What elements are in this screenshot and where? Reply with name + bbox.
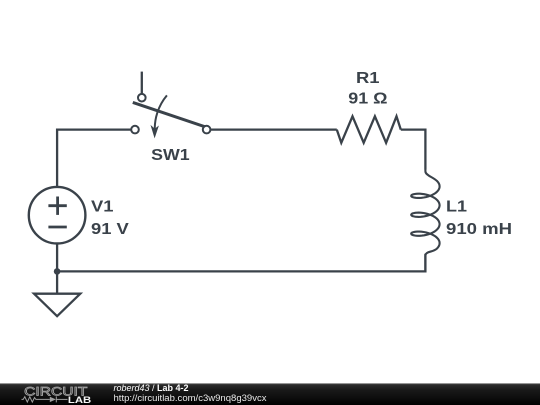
ground: [34, 294, 80, 317]
svg-text:SW1: SW1: [151, 147, 190, 164]
switch rotation arrow: [155, 95, 167, 132]
switch terminal: left: [131, 126, 139, 134]
wire: V1 top to switch left terminal: [57, 130, 131, 187]
svg-text:91 Ω: 91 Ω: [348, 91, 387, 108]
svg-text:roberd43 / Lab 4-2: roberd43 / Lab 4-2: [114, 383, 189, 393]
resistor R1: [337, 116, 401, 143]
node junction dot: [54, 268, 61, 275]
inductor L1: [411, 169, 439, 271]
svg-text:http://circuitlab.com/c3w9nq8g: http://circuitlab.com/c3w9nq8g39vcx: [114, 393, 268, 403]
svg-text:910 mH: 910 mH: [446, 221, 512, 238]
CircuitLab logo: zigzag + diode glyph: [22, 396, 68, 402]
svg-text:V1: V1: [91, 199, 114, 216]
svg-text:R1: R1: [356, 70, 380, 87]
wire: bottom rail, inductor bottom to junction: [57, 254, 425, 272]
minus sign: [48, 226, 66, 229]
wire: resistor R1 to inductor L1 top: [401, 130, 426, 170]
voltage source V1: [29, 187, 86, 244]
svg-text:LAB: LAB: [68, 395, 91, 405]
footer bar: [0, 383, 540, 405]
switch terminal: right: [203, 126, 211, 134]
wire: switch top stub: [141, 72, 143, 94]
svg-text:91 V: 91 V: [91, 221, 129, 238]
switch terminal: top: [138, 94, 146, 102]
plus sign: [48, 204, 66, 207]
switch lever: [133, 102, 207, 127]
svg-text:L1: L1: [446, 199, 467, 216]
wire: V1 bottom to junction to ground: [56, 244, 58, 294]
wire: switch right terminal to resistor R1: [210, 128, 337, 130]
switch SW1: [131, 72, 210, 139]
